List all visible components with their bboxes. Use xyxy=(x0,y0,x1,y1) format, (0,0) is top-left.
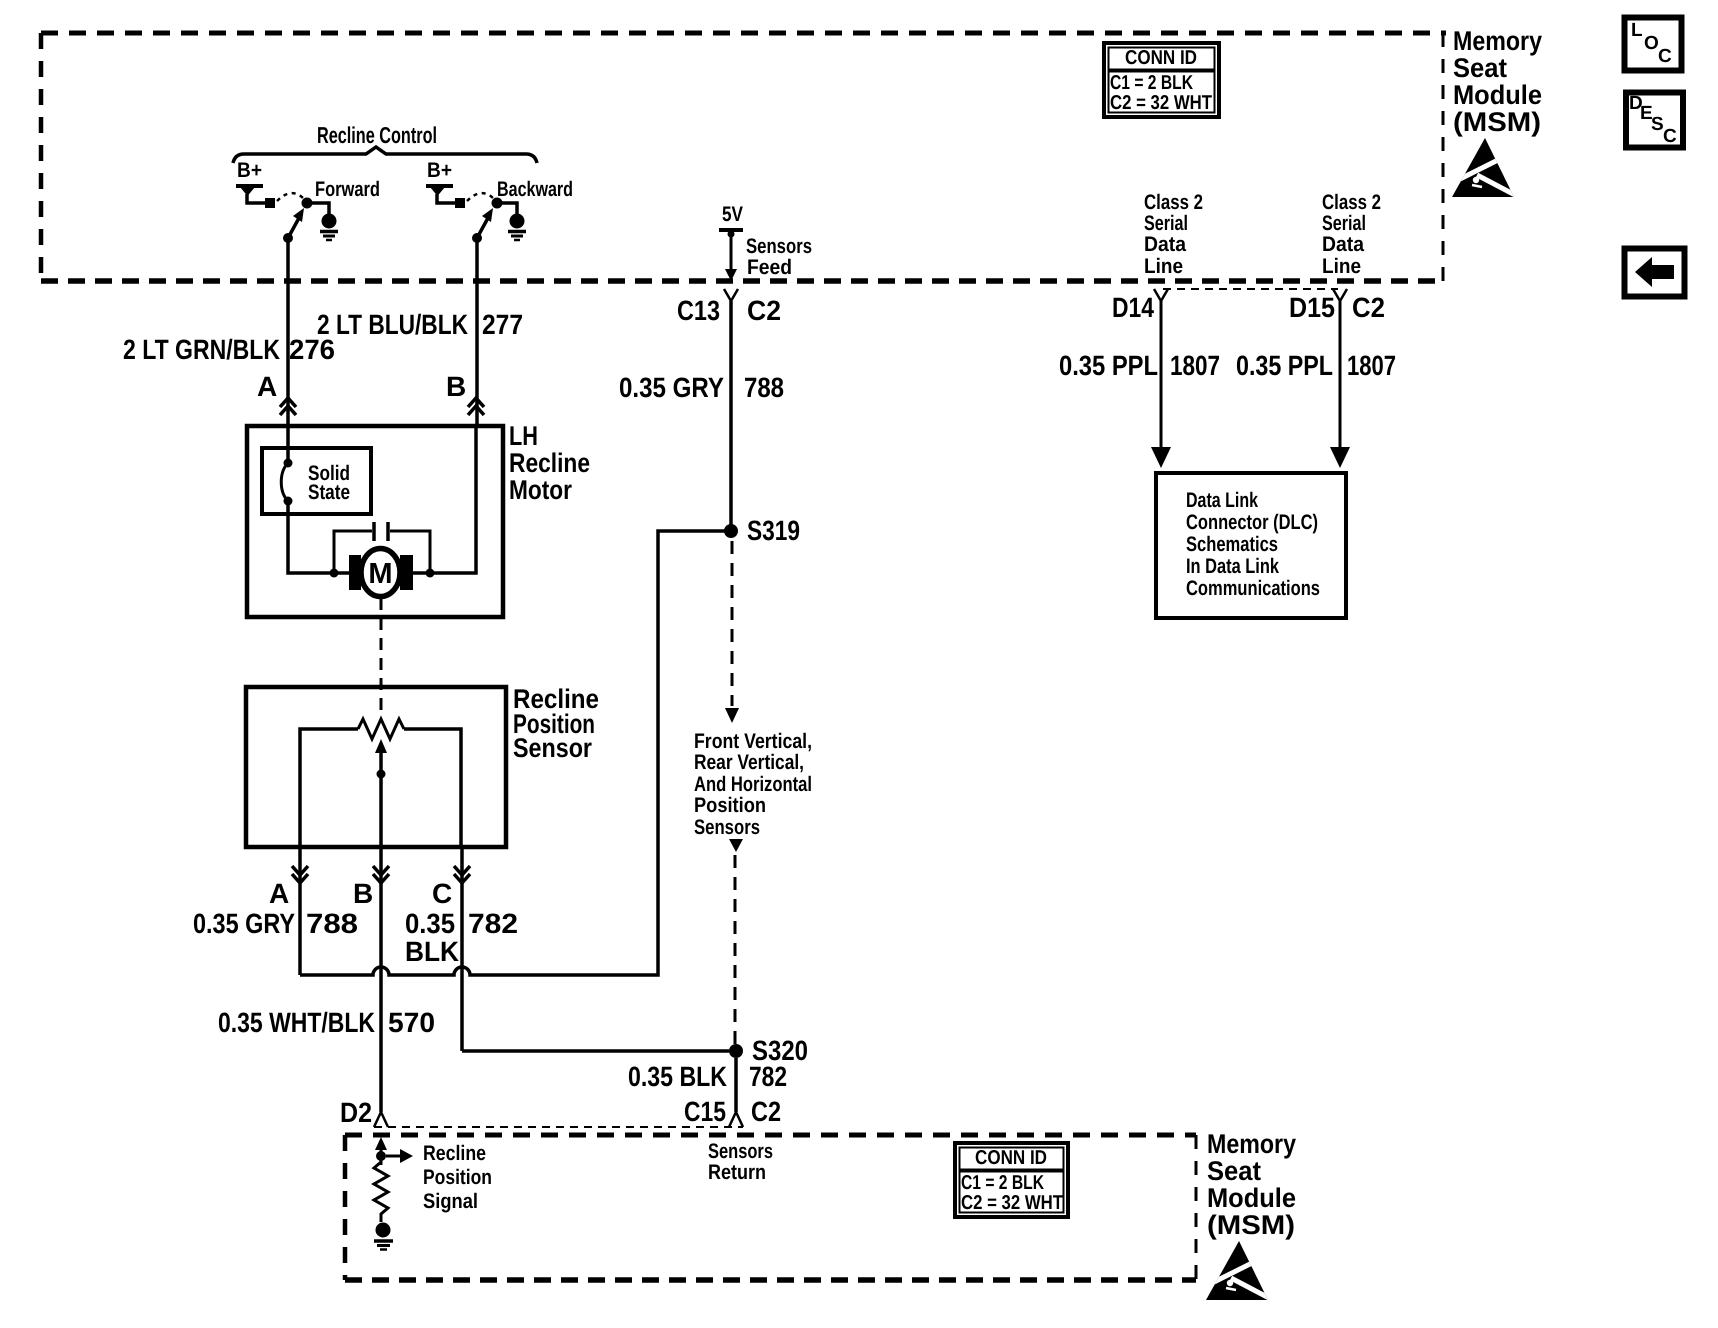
potentiometer wiper arrow xyxy=(375,739,387,847)
connector C2 thin dashed boundary (top) xyxy=(1163,288,1338,290)
svg-text:Connector (DLC): Connector (DLC) xyxy=(1186,511,1318,534)
ESD sensitivity symbol (bottom) xyxy=(1206,1241,1269,1300)
svg-text:Data Link: Data Link xyxy=(1186,489,1258,512)
svg-text:0.35 GRY: 0.35 GRY xyxy=(193,908,295,939)
svg-text:Front Vertical,: Front Vertical, xyxy=(694,730,812,753)
ground G1 (forward) xyxy=(320,214,338,241)
connector C2 thin dashed boundary (bottom) xyxy=(374,1126,743,1128)
svg-text:C: C xyxy=(432,878,452,909)
svg-text:A: A xyxy=(269,878,289,909)
svg-text:788: 788 xyxy=(306,908,358,939)
svg-text:1807: 1807 xyxy=(1347,350,1396,381)
switch SW1 Forward: common contact xyxy=(302,198,313,209)
chevrons sensor pin B xyxy=(373,866,389,875)
wire from sensor A to S319 with hops over B and C xyxy=(300,531,725,975)
Data Link Connector note xyxy=(1186,489,1320,600)
svg-text:(MSM): (MSM) xyxy=(1453,107,1541,137)
svg-text:1807: 1807 xyxy=(1170,350,1220,381)
svg-text:C2 = 32 WHT: C2 = 32 WHT xyxy=(1110,92,1212,114)
svg-text:C2: C2 xyxy=(747,295,781,326)
svg-text:C2: C2 xyxy=(751,1096,781,1127)
recline position signal node xyxy=(375,1137,413,1165)
solid state box xyxy=(262,448,371,514)
switch SW2 Backward: movable arm with arrowhead xyxy=(472,208,493,243)
svg-text:M: M xyxy=(368,558,392,590)
svg-text:Rear Vertical,: Rear Vertical, xyxy=(694,751,804,774)
svg-text:782: 782 xyxy=(468,908,518,939)
wire A: forward switch to motor terminal A xyxy=(286,238,290,426)
switch SW2 Backward: B+ terminal xyxy=(426,159,465,208)
Sensors Return label xyxy=(708,1140,773,1184)
Sensors Feed label xyxy=(746,235,812,279)
svg-text:Serial: Serial xyxy=(1322,212,1366,235)
svg-text:B: B xyxy=(353,878,373,909)
solid state label xyxy=(308,462,350,504)
5V supply symbol xyxy=(719,203,743,281)
svg-text:O: O xyxy=(1644,33,1659,54)
svg-text:Recline Control: Recline Control xyxy=(317,122,437,148)
svg-text:Feed: Feed xyxy=(747,256,792,279)
svg-text:In Data Link: In Data Link xyxy=(1186,555,1279,578)
svg-text:C15: C15 xyxy=(684,1096,726,1127)
internal resistor xyxy=(374,1162,388,1222)
switch SW1 Forward: dashed travel arc xyxy=(277,193,303,201)
svg-text:B+: B+ xyxy=(427,159,452,182)
connector D2 fork xyxy=(374,1112,388,1127)
dashed return from other position sensors xyxy=(729,839,743,852)
switch SW1 Forward: B+ terminal xyxy=(236,159,275,208)
svg-text:C: C xyxy=(1658,46,1672,67)
svg-text:0.35 PPL: 0.35 PPL xyxy=(1236,350,1333,381)
Data Link Connector box xyxy=(1156,473,1346,618)
connector chevrons wire B xyxy=(468,398,484,407)
svg-text:2 LT BLU/BLK: 2 LT BLU/BLK xyxy=(317,309,468,340)
ground G2 (backward) xyxy=(508,214,526,241)
internal ground xyxy=(374,1223,393,1250)
svg-text:Sensor: Sensor xyxy=(513,733,592,763)
chevrons sensor pin C xyxy=(454,866,470,875)
svg-text:LH: LH xyxy=(509,421,538,451)
wire B out of sensor xyxy=(379,847,383,1112)
svg-text:Sensors: Sensors xyxy=(694,816,760,839)
svg-text:Sensors: Sensors xyxy=(746,235,812,258)
splice S319 xyxy=(724,524,738,538)
svg-text:Serial: Serial xyxy=(1144,212,1188,235)
LH Recline Motor label xyxy=(509,421,590,505)
svg-text:State: State xyxy=(308,481,350,504)
svg-text:CONN ID: CONN ID xyxy=(975,1147,1047,1169)
wire 5V feed down to S319 xyxy=(729,301,733,531)
Memory Seat Module label (top) xyxy=(1453,26,1542,137)
Recline Control brace xyxy=(233,147,537,163)
svg-text:L: L xyxy=(1631,20,1643,41)
svg-text:D15: D15 xyxy=(1289,292,1335,323)
svg-text:Position: Position xyxy=(423,1166,492,1189)
svg-text:B: B xyxy=(446,371,466,402)
svg-text:5V: 5V xyxy=(722,203,743,226)
chevrons sensor pin A xyxy=(292,866,308,875)
svg-text:Forward: Forward xyxy=(315,178,380,201)
svg-text:(MSM): (MSM) xyxy=(1207,1210,1295,1240)
svg-text:0.35 BLK: 0.35 BLK xyxy=(628,1061,727,1092)
svg-text:Return: Return xyxy=(708,1161,766,1184)
back arrow icon box xyxy=(1625,249,1685,297)
svg-text:Class 2: Class 2 xyxy=(1144,191,1203,214)
svg-text:D14: D14 xyxy=(1112,292,1154,323)
svg-text:Motor: Motor xyxy=(509,475,572,505)
svg-text:788: 788 xyxy=(744,372,784,403)
ESD sensitivity symbol (top) xyxy=(1452,138,1515,197)
splice S320 xyxy=(729,1044,743,1058)
LH Recline Motor box xyxy=(247,426,503,617)
svg-text:0.35 WHT/BLK: 0.35 WHT/BLK xyxy=(218,1007,375,1038)
svg-text:Data: Data xyxy=(1322,233,1364,256)
svg-text:C13: C13 xyxy=(677,295,720,326)
mechanical link motor to position sensor (dashed) xyxy=(380,598,383,712)
wire from breaker to motor left brush xyxy=(288,501,350,573)
svg-text:782: 782 xyxy=(749,1061,787,1092)
svg-text:Recline: Recline xyxy=(423,1142,486,1165)
svg-text:And Horizontal: And Horizontal xyxy=(694,773,812,796)
svg-text:Class 2: Class 2 xyxy=(1322,191,1381,214)
svg-text:C: C xyxy=(1663,126,1677,147)
svg-text:D2: D2 xyxy=(340,1097,372,1128)
motor M xyxy=(349,549,413,597)
switch SW1 Forward: contact to ground wire xyxy=(307,203,329,214)
other sensors note xyxy=(694,730,812,839)
svg-text:A: A xyxy=(257,371,277,402)
switch SW1 Forward: movable arm with arrowhead xyxy=(283,208,304,243)
connector D14 fork xyxy=(1154,289,1168,301)
svg-text:Memory: Memory xyxy=(1453,26,1542,56)
svg-text:570: 570 xyxy=(388,1007,435,1038)
switch SW2 Backward: common contact xyxy=(492,198,503,209)
wire S320 to C15 xyxy=(734,1058,738,1112)
svg-text:Position: Position xyxy=(694,794,766,817)
svg-text:BLK: BLK xyxy=(405,936,459,967)
svg-text:Backward: Backward xyxy=(497,178,573,201)
recline position signal label xyxy=(423,1142,492,1213)
svg-text:0.35: 0.35 xyxy=(405,908,455,939)
wire motor right brush to terminal B xyxy=(413,426,476,573)
MSM module bottom dashed box xyxy=(345,1135,1196,1280)
circuit breaker element inside solid state box xyxy=(281,426,292,506)
potentiometer resistor element xyxy=(300,719,461,847)
wire A out of sensor xyxy=(298,847,302,975)
Class 2 serial data line label (left) xyxy=(1144,191,1203,278)
Recline Position Sensor box xyxy=(246,687,506,847)
dashed feed to other position sensors xyxy=(731,541,734,706)
svg-text:S: S xyxy=(1651,114,1664,135)
svg-text:C2 = 32 WHT: C2 = 32 WHT xyxy=(961,1192,1063,1214)
svg-text:Line: Line xyxy=(1144,255,1183,278)
svg-text:277: 277 xyxy=(482,309,523,340)
svg-text:C1 = 2 BLK: C1 = 2 BLK xyxy=(961,1172,1044,1194)
svg-text:Memory: Memory xyxy=(1207,1129,1296,1159)
wire C out of sensor xyxy=(460,847,464,1051)
MSM module top dashed box xyxy=(41,33,1446,281)
svg-text:S319: S319 xyxy=(747,515,800,546)
svg-text:Seat: Seat xyxy=(1207,1156,1261,1186)
switch SW2 Backward: contact to ground wire xyxy=(497,203,517,214)
svg-text:Data: Data xyxy=(1144,233,1186,256)
svg-text:CONN ID: CONN ID xyxy=(1125,47,1197,69)
Class 2 serial data line label (right) xyxy=(1322,191,1381,278)
svg-text:Signal: Signal xyxy=(423,1190,478,1213)
svg-text:Module: Module xyxy=(1207,1183,1296,1213)
capacitor across motor xyxy=(330,522,435,578)
DESC icon box xyxy=(1626,93,1683,148)
wire D14 to DLC xyxy=(1160,301,1163,452)
svg-text:B+: B+ xyxy=(237,159,262,182)
svg-text:Line: Line xyxy=(1322,255,1361,278)
svg-text:Module: Module xyxy=(1453,80,1542,110)
Memory Seat Module label (bottom) xyxy=(1207,1129,1296,1240)
svg-text:Schematics: Schematics xyxy=(1186,533,1278,556)
Recline Position Sensor label xyxy=(513,684,599,763)
svg-text:2 LT GRN/BLK: 2 LT GRN/BLK xyxy=(123,334,280,365)
svg-text:Sensors: Sensors xyxy=(708,1140,773,1163)
svg-text:Recline: Recline xyxy=(509,448,590,478)
svg-text:C2: C2 xyxy=(1352,292,1385,323)
wire D15 to DLC xyxy=(1339,301,1342,452)
connector chevrons wire A xyxy=(280,398,296,407)
connector C13 fork xyxy=(724,289,738,301)
CONN ID table (bottom) xyxy=(955,1143,1068,1217)
svg-text:Seat: Seat xyxy=(1453,53,1507,83)
wire B: backward switch to motor terminal B xyxy=(475,238,479,426)
switch SW2 Backward: dashed travel arc xyxy=(467,193,493,201)
svg-text:0.35 GRY: 0.35 GRY xyxy=(619,372,724,403)
LOC icon box xyxy=(1625,18,1682,71)
svg-text:C1 = 2 BLK: C1 = 2 BLK xyxy=(1110,72,1193,94)
svg-text:0.35 PPL: 0.35 PPL xyxy=(1059,350,1158,381)
wire sensor C to S320 xyxy=(462,1049,729,1053)
CONN ID table (top) xyxy=(1104,43,1219,117)
connector C15 fork xyxy=(729,1112,743,1127)
connector D15 fork xyxy=(1333,289,1347,301)
svg-text:Communications: Communications xyxy=(1186,577,1320,600)
